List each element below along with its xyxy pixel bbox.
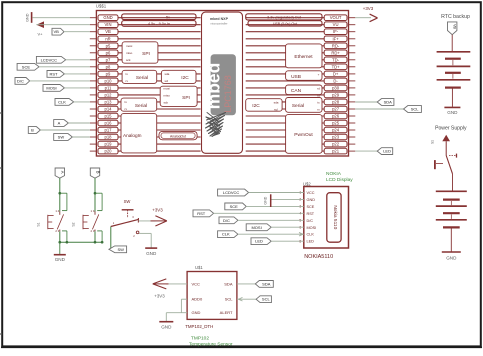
pin p7 [90,57,201,63]
wire [72,136,89,138]
wire [39,66,90,68]
net label SCL [355,106,421,113]
svg-text:AnalogOut: AnalogOut [170,135,186,139]
switch S3 designator [431,140,435,144]
svg-text:VB: VB [453,24,457,29]
svg-text:td: td [317,93,320,97]
TMP102 comment [189,336,233,348]
pin p21 [246,148,356,154]
pin p17 [90,127,201,133]
wire battery to ground [451,88,453,107]
supply arrow up [442,135,450,156]
value label 5v In box [122,14,196,20]
pin VB [90,29,201,35]
pin p16 [90,120,201,126]
svg-text:TMP102_DTH: TMP102_DTH [185,324,213,329]
svg-text:Power Supply: Power Supply [435,126,467,132]
svg-text:p14: p14 [105,107,113,112]
svg-text:SCE: SCE [22,64,31,69]
pin p27 [246,106,356,112]
wire [30,80,90,82]
pin p18 [90,134,201,140]
pin VU [246,22,356,28]
mbed module center graphic [202,12,243,153]
wire [74,101,90,103]
svg-text:I2C: I2C [181,75,189,81]
svg-text:1 4: 1 4 [55,209,59,213]
wire [271,226,304,228]
svg-text:CLK: CLK [307,233,315,237]
TMP102 part name [185,324,213,329]
pin nR [90,36,201,42]
ground (switch) [145,248,157,256]
net label B (button) [90,168,100,178]
pin p14 [90,106,201,112]
net label CLK (LCD pin 7) [218,231,238,238]
switch S3 [435,154,457,174]
svg-text:D+: D+ [333,71,339,76]
svg-text:A: A [60,171,65,174]
net label LED [355,148,392,155]
Serial group p13-p14 [121,98,157,111]
svg-text:5v: 5v [166,15,170,19]
wire [249,192,304,194]
svg-text:NOKIA5110: NOKIA5110 [304,254,333,260]
pin p9 [90,71,201,77]
wire [246,205,304,207]
svg-text:SDA: SDA [384,100,393,105]
ground (power supply) [442,252,461,261]
mbed module U$$1 reference [96,4,107,9]
pin p6 [90,50,201,56]
svg-text:p26: p26 [332,114,340,119]
svg-text:p11: p11 [105,85,112,90]
supply arrow +3V3 (TMP102) [153,279,169,299]
wire switch to +3V3 [138,220,155,222]
net label SCE (LCD pin 3) [225,203,246,210]
net label RST [47,71,64,78]
pin p5 [90,43,201,49]
pin RD- [246,43,356,49]
pushbutton S1 [37,209,64,233]
svg-text:ADD0: ADD0 [192,297,203,302]
svg-text:RD+: RD+ [331,50,340,55]
wire button bypass [95,193,102,242]
svg-text:GND: GND [161,325,172,330]
svg-text:LCDVCC: LCDVCC [41,57,58,62]
svg-text:GND: GND [192,310,201,315]
LCD U$2 reference [303,181,311,186]
USB group [286,71,322,83]
wire button bypass [60,193,67,242]
I2C group p28-p27 [246,99,282,112]
wire button bottom [59,231,61,242]
svg-text:V+: V+ [37,32,43,37]
wire button top [59,178,61,211]
net label SW (switch pole) [109,246,127,253]
svg-text:S1: S1 [431,140,435,144]
svg-text:B: B [31,128,34,133]
wire LCD GND pin [271,198,304,200]
svg-text:miso: miso [126,51,133,55]
net label SW [54,134,73,141]
svg-text:S2: S2 [72,222,76,226]
svg-text:RST: RST [307,212,315,216]
AnalogIn group p15-p20 [121,114,157,153]
svg-text:p16: p16 [105,121,113,126]
svg-text:I2C: I2C [252,103,260,109]
pin p23 [246,134,356,140]
svg-text:mosi: mosi [126,44,133,48]
net label SCL (TMP102) [256,296,271,303]
svg-text:MOSI: MOSI [251,225,261,230]
svg-text:GND: GND [146,251,157,256]
wire rail to ground [59,242,61,254]
pin D- [246,78,356,84]
wire [66,59,90,61]
ground (LCD pin 2) [264,194,271,207]
value label 3.3v regulated Out box [246,14,322,20]
pin p26 [246,113,356,119]
svg-text:p23: p23 [332,135,340,140]
svg-text:AnalogIn: AnalogIn [123,133,142,138]
svg-text:U$$1: U$$1 [96,4,107,9]
supply arrow +3V3 (VOUT) [355,6,377,22]
svg-text:nR: nR [105,36,110,41]
svg-text:SPI: SPI [182,95,190,101]
svg-text:U$2: U$2 [303,181,311,186]
net label SDA (TMP102) [255,281,273,288]
svg-text:+3V3: +3V3 [363,6,374,11]
svg-text:LED: LED [255,239,263,244]
CAN group [286,85,322,97]
wire button bottom [94,231,96,242]
wire GND pin [32,17,89,19]
Serial group p9-p10 [122,70,157,83]
svg-text:SCE: SCE [307,205,315,209]
wire VB to battery [451,35,453,52]
battery B1 RTC [437,52,471,88]
svg-text:MOSI: MOSI [307,226,317,230]
svg-text:CAN: CAN [291,88,302,94]
svg-text:GND: GND [103,15,112,20]
wire [68,122,89,124]
pin TD- [246,57,356,63]
svg-text:CLK: CLK [58,99,66,104]
wire battery to ground [450,227,452,251]
junction [94,192,97,195]
pin VIN [90,22,201,28]
pin VOUT [246,15,356,21]
pin p20 [90,148,201,154]
svg-text:sda: sda [274,100,279,104]
pin D+ [246,71,356,77]
svg-text:p6: p6 [106,50,111,55]
svg-text:p27: p27 [332,107,340,112]
pin p12 [90,92,201,98]
ground (buttons) [54,255,66,262]
net label A [54,120,69,127]
net label SCE [17,63,39,70]
wire switch NC to ground [139,233,151,247]
wire [271,240,304,242]
svg-text:scl: scl [165,79,169,83]
svg-text:USB (5.0v) Out: USB (5.0v) Out [273,22,297,26]
svg-text:VCC: VCC [192,281,201,286]
svg-text:GND: GND [26,13,30,22]
svg-text:1 4: 1 4 [91,209,95,213]
svg-text:SCL: SCL [411,107,420,112]
svg-text:B: B [95,171,100,174]
svg-text:VB: VB [54,29,60,34]
svg-text:RTC backup: RTC backup [441,14,470,20]
pin p29 [246,92,356,98]
svg-text:Ethernet: Ethernet [294,54,313,60]
pin p24 [246,127,356,133]
net label RST (LCD pin 4) [193,210,214,217]
svg-text:SPI: SPI [142,51,150,57]
pin p28 [246,99,356,105]
svg-text:p22: p22 [332,142,340,147]
junction rail [58,241,103,244]
pin p13 [90,99,201,105]
svg-text:RST: RST [197,211,206,216]
svg-text:p21: p21 [332,149,340,154]
svg-text:+: + [318,73,320,77]
svg-text:Serial: Serial [135,103,147,109]
svg-text:4.5v - 9.0v In: 4.5v - 9.0v In [148,22,170,26]
svg-text:p8: p8 [106,64,111,69]
svg-text:sda: sda [165,72,170,76]
svg-text:VCC: VCC [307,191,315,195]
svg-text:ALERT: ALERT [220,310,233,315]
pin IF- [246,29,356,35]
LCD part name NOKIA5110 [304,254,333,260]
svg-text:SW: SW [117,247,124,252]
svg-text:TMP102: TMP102 [191,336,209,342]
svg-text:A: A [58,121,61,126]
svg-text:+3V3: +3V3 [152,208,163,213]
svg-text:p9: p9 [106,71,111,76]
svg-text:IF+: IF+ [333,36,340,41]
pin RD+ [246,50,356,56]
wire [64,73,89,75]
svg-text:+3V3: +3V3 [154,294,165,299]
svg-text:RD-: RD- [332,43,340,48]
svg-text:p13: p13 [105,99,113,104]
wire switch to battery [452,174,454,191]
wire SDA [237,283,255,285]
svg-text:GND: GND [446,256,457,261]
svg-text:SDA: SDA [224,281,233,286]
svg-text:p15: p15 [105,114,113,119]
svg-text:TD-: TD- [332,57,340,62]
Serial group p28-p27 [286,98,322,113]
ground (top left, GND pin) [26,12,32,23]
svg-text:p30: p30 [332,85,340,90]
net label D/C [15,78,30,85]
svg-text:p10: p10 [105,78,113,83]
svg-text:U$1: U$1 [195,265,203,270]
net label VB (battery) [448,22,457,35]
PwmOut group p26-p21 [286,115,322,154]
wire VB [64,31,90,33]
RTC backup label [441,14,470,20]
net label A (button) [55,168,65,178]
pin p19 [90,141,201,147]
svg-text:VOUT: VOUT [330,15,342,20]
wire [40,129,89,131]
svg-text:p19: p19 [105,142,113,147]
svg-text:p20: p20 [105,149,113,154]
svg-text:GND: GND [55,257,66,262]
Ethernet group [286,44,322,68]
svg-text:D/C: D/C [307,219,314,223]
svg-text:SCL: SCL [262,297,271,302]
wire button top [94,178,96,211]
ground (RTC battery) [444,107,460,115]
svg-text:CLK: CLK [222,232,230,237]
svg-text:TD+: TD+ [332,64,341,69]
junction [58,192,61,195]
svg-text:scl: scl [274,107,278,111]
svg-text:SCL: SCL [225,297,234,302]
pin TD+ [246,64,356,70]
wire SCL [237,297,256,301]
svg-text:-: - [318,79,319,83]
SPI group p11-p13 [160,86,197,106]
svg-text:mosi: mosi [164,87,171,91]
value label USB 5.0v Out box [248,21,322,26]
svg-text:VIN: VIN [105,22,112,27]
svg-text:Temperature Sensor: Temperature Sensor [189,341,233,347]
wire [214,212,304,214]
svg-text:p25: p25 [332,121,340,126]
LCD U$2 body [299,187,348,249]
svg-text:LPC1768: LPC1768 [223,75,233,113]
wire GND pin [166,313,187,322]
svg-text:S1: S1 [37,222,41,226]
svg-text:p18: p18 [105,135,113,140]
svg-text:GND: GND [307,198,316,202]
svg-text:SW: SW [124,199,131,204]
switch SW designator [124,199,131,204]
supply arrow +3V3 (switch) [151,208,167,227]
pin p30 [246,85,356,91]
wire arrowhead CLK [299,232,303,236]
svg-text:NOKIA: NOKIA [326,171,342,177]
svg-text:LED: LED [307,240,315,244]
net label CLK [55,99,74,106]
svg-text:IF-: IF- [333,29,339,34]
mbed module U$$1 body outline [96,11,348,157]
svg-text:2 3: 2 3 [91,229,95,233]
net label LCDVCC (LCD pin 1) [218,189,249,196]
battery B2 power supply [436,191,467,227]
wire ADD0 to gnd [181,299,187,313]
pushbutton S2 [72,209,99,233]
wire VCC [166,283,187,285]
pin p25 [246,120,356,126]
net label D/C (LCD pin 5) [219,217,238,224]
net label LED (LCD pin 8) [251,238,271,245]
svg-text:RST: RST [50,71,59,76]
pin GND [90,15,201,21]
svg-text:USB: USB [291,74,301,80]
svg-text:D/C: D/C [223,218,230,223]
svg-text:LCDVCC: LCDVCC [223,190,240,195]
svg-text:rd: rd [317,87,320,91]
svg-text:p17: p17 [105,128,113,133]
TMP102 U$1 body [187,272,237,320]
switch SW [111,210,139,238]
svg-text:p7: p7 [106,57,111,62]
svg-text:SW: SW [58,135,65,140]
wire [238,233,304,235]
svg-text:p5: p5 [106,43,111,48]
pin p8 [90,64,201,70]
SPI group p5-p7 [122,42,158,63]
ground (TMP102) [159,322,173,330]
svg-text:mbed NXP: mbed NXP [210,17,229,21]
net label B [28,127,40,134]
pin IF+ [246,36,356,42]
net label LCDVCC [36,56,65,63]
svg-text:2 3: 2 3 [55,229,59,233]
pin p15 [90,113,201,119]
svg-text:sck: sck [126,58,131,62]
TMP102 U$1 reference [195,265,203,270]
net label MOSI [43,85,64,92]
svg-text:SCE: SCE [230,204,239,209]
svg-text:Serial: Serial [136,75,148,81]
svg-text:D/C: D/C [17,78,24,83]
svg-text:sck: sck [164,101,169,105]
svg-text:D-: D- [333,78,338,83]
svg-text:VU: VU [333,22,339,27]
wire [238,219,304,221]
Power Supply label [435,126,467,132]
svg-text:MOSI: MOSI [46,85,56,90]
svg-text:LED: LED [383,149,391,154]
wire switch pole [110,227,112,250]
supply arrow V+ (VIN) [36,21,44,36]
svg-text:mbed: mbed [204,63,224,110]
wire VIN [36,24,90,26]
svg-text:VB: VB [105,29,111,34]
svg-text:microcontroller: microcontroller [210,22,227,26]
value label 4.5v-9.0v In box [122,21,196,27]
wire ground rail [60,241,102,243]
svg-text:PwmOut: PwmOut [294,132,313,138]
pin p10 [90,78,201,84]
svg-text:3.3v (regulated) Out: 3.3v (regulated) Out [267,16,302,20]
svg-text:Serial: Serial [292,103,304,109]
svg-text:Nokia 5110: Nokia 5110 [332,205,338,229]
svg-text:SDA: SDA [262,281,271,286]
svg-text:miso: miso [164,94,171,98]
svg-text:LCD Display: LCD Display [326,177,353,183]
svg-text:p12: p12 [105,92,113,97]
svg-text:GND: GND [264,196,268,204]
NOKIA LCD Display comment [326,171,353,183]
svg-text:p24: p24 [332,128,340,133]
AnalogOut group p18 [159,131,197,139]
I2C group p9-p10 [161,70,196,83]
pin p11 [90,85,201,91]
svg-text:p29: p29 [332,92,340,97]
net label SDA [355,99,394,106]
